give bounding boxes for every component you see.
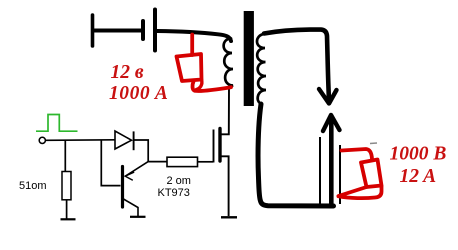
svg-text:12 в: 12 в bbox=[111, 62, 144, 83]
wire resistor to ground bbox=[66, 200, 68, 219]
wire battery horizontal bbox=[93, 29, 141, 33]
transistor Q1 emitter arrowhead bbox=[125, 172, 134, 180]
transistor Q1 emitter wire bbox=[125, 162, 148, 177]
svg-text:1000 A: 1000 A bbox=[109, 83, 168, 104]
resistor R1 51om body bbox=[62, 172, 71, 200]
wire input to diode bbox=[46, 139, 115, 142]
clamp meter left jaw bbox=[177, 54, 202, 81]
svg-text:2 om: 2 om bbox=[167, 175, 191, 187]
clamp meter right tail left edge bbox=[339, 187, 367, 196]
MOSFET VT2 gate bar bbox=[213, 130, 215, 163]
svg-text:1000 В: 1000 В bbox=[390, 144, 447, 165]
diode VD1 cathode bar bbox=[133, 131, 135, 150]
transformer T1 secondary winding bbox=[257, 34, 266, 104]
transformer T1 primary winding bbox=[224, 39, 233, 88]
smudge mark bbox=[370, 142, 377, 145]
conductor line right of up-arrow bbox=[339, 145, 341, 204]
resistor R2 2om body bbox=[167, 157, 198, 166]
transistor Q1 collector wire bbox=[124, 199, 139, 216]
battery B1 left plate bbox=[91, 15, 95, 46]
wire secondary top to down-arrow bbox=[264, 30, 329, 100]
wire battery to transformer primary bbox=[157, 31, 231, 41]
wire primary bottom to MOSFET drain bbox=[220, 87, 229, 134]
wire junction to resistor 51om bbox=[64, 140, 66, 171]
svg-text:12 A: 12 A bbox=[400, 166, 437, 187]
arrowhead up (current direction) bbox=[323, 115, 340, 131]
wire up-arrow shaft bbox=[329, 117, 334, 206]
transistor Q1 base bar bbox=[121, 167, 124, 208]
clamp meter left tail bbox=[192, 82, 231, 91]
clamp meter right top bar bbox=[342, 149, 373, 159]
pulse input symbol (green) bbox=[36, 115, 78, 132]
arrowhead down (current direction) bbox=[319, 89, 337, 104]
clamp meter left jaw hook bbox=[197, 80, 202, 90]
conductor line left of up-arrow bbox=[319, 137, 321, 207]
svg-text:51om: 51om bbox=[19, 180, 47, 192]
ground (R1) bbox=[61, 218, 76, 220]
ground (MOSFET source) bbox=[221, 216, 237, 218]
MOSFET VT2 channel bar bbox=[218, 129, 221, 162]
clamp meter right tail bottom bbox=[339, 187, 382, 199]
diode VD1 triangle bbox=[115, 131, 132, 149]
wire junction to transistor base bbox=[101, 140, 120, 185]
MOSFET VT2 source wire to ground bbox=[221, 156, 229, 216]
ground (Q1 collector) bbox=[130, 216, 146, 218]
wire diode cathode to corner bbox=[135, 140, 168, 162]
wire secondary bottom loop bbox=[258, 104, 333, 206]
battery B1 long plate bbox=[153, 10, 157, 51]
battery B1 short plate bbox=[141, 21, 145, 39]
clamp meter left stem bbox=[190, 35, 194, 56]
transformer T1 core bbox=[244, 11, 254, 106]
clamp meter right jaw bbox=[361, 160, 382, 188]
svg-text:KT973: KT973 bbox=[158, 187, 190, 199]
input terminal circle bbox=[39, 137, 45, 143]
wire gate to resistor bbox=[198, 161, 214, 163]
